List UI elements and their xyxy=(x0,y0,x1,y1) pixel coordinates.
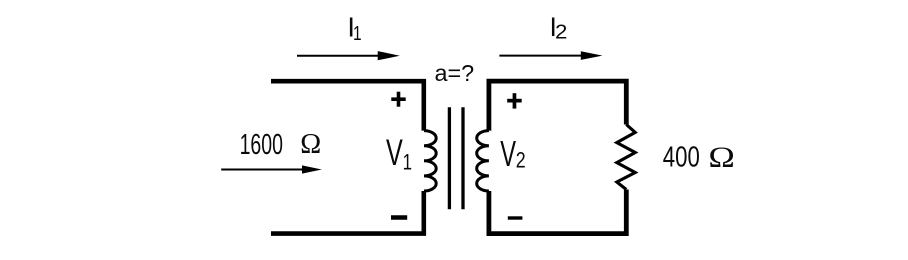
svg-text:2: 2 xyxy=(516,148,526,173)
label V1 (primary voltage) xyxy=(386,132,412,174)
svg-text:400: 400 xyxy=(663,142,700,174)
label I2 xyxy=(550,12,568,43)
resistor RL (load) zigzag xyxy=(617,125,635,190)
wire: primary loop bottom from winding down and left xyxy=(271,191,424,234)
svg-text:V: V xyxy=(500,134,516,174)
label I1 xyxy=(347,11,361,45)
label V2 (secondary voltage) xyxy=(500,134,525,174)
svg-text:1: 1 xyxy=(353,23,362,45)
svg-text:a=?: a=? xyxy=(435,60,475,86)
current arrow I2 xyxy=(499,51,602,60)
transformer core (two parallel lines) xyxy=(449,107,463,209)
polarity minus sign (primary) xyxy=(391,215,407,219)
svg-text:Ω: Ω xyxy=(300,129,321,160)
wire: secondary loop top from winding to resistor xyxy=(489,81,626,131)
label 400 Ω (load resistance) xyxy=(663,142,735,174)
wire: secondary loop bottom from winding to resistor xyxy=(489,190,626,234)
polarity minus sign (secondary) xyxy=(508,216,523,219)
wire: primary loop top and right side down to winding xyxy=(271,81,424,130)
polarity plus sign (primary) xyxy=(391,92,405,107)
svg-text:V: V xyxy=(386,132,403,173)
svg-text:1600: 1600 xyxy=(240,129,283,161)
label 1600 Ω (reflected impedance) xyxy=(240,129,322,161)
svg-text:2: 2 xyxy=(555,21,567,43)
impedance arrow (looking into primary) xyxy=(221,165,322,173)
current arrow I1 xyxy=(297,51,400,60)
primary winding of transformer T1 xyxy=(424,131,436,191)
polarity plus sign (secondary) xyxy=(507,93,522,108)
svg-text:1: 1 xyxy=(403,150,412,175)
svg-text:Ω: Ω xyxy=(708,142,735,174)
secondary winding of transformer T1 xyxy=(477,131,489,191)
